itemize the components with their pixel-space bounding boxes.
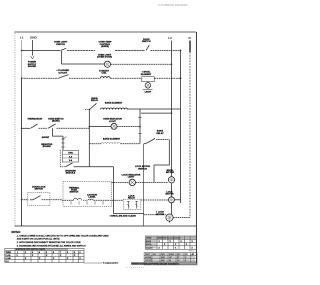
svg-text:RELAY: RELAY bbox=[91, 99, 99, 102]
svg-text:(OVEN DOOR): (OVEN DOOR) bbox=[97, 57, 112, 59]
svg-text:6: 6 bbox=[53, 252, 54, 254]
svg-text:71302307C: 71302307C bbox=[103, 261, 120, 265]
svg-text:5: 5 bbox=[46, 252, 47, 254]
svg-text:3. DIAGRAMS ARE IN RANGE ATTAC: 3. DIAGRAMS ARE IN RANGE ATTACHED ALL WI… bbox=[17, 244, 86, 247]
svg-text:OUTLET: OUTLET bbox=[58, 72, 67, 74]
svg-text:RELAY: RELAY bbox=[156, 132, 164, 135]
svg-text:COIL: COIL bbox=[101, 73, 107, 75]
svg-text:LABEL: LABEL bbox=[88, 196, 96, 199]
svg-text:7: 7 bbox=[60, 252, 61, 254]
svg-text:GND: GND bbox=[30, 36, 38, 40]
svg-text:TERM: TERM bbox=[6, 252, 12, 254]
svg-text:BAKE ELEMENT: BAKE ELEMENT bbox=[105, 102, 123, 105]
svg-text:L1: L1 bbox=[20, 36, 24, 40]
svg-text:MOTOR: MOTOR bbox=[166, 172, 175, 174]
svg-text:LIGHT: LIGHT bbox=[128, 177, 135, 179]
svg-text:RELAY: RELAY bbox=[128, 196, 136, 199]
svg-text:● BROIL (HI) AND CLEAN: ● BROIL (HI) AND CLEAN bbox=[109, 214, 136, 217]
svg-text:0: 0 bbox=[80, 252, 81, 254]
svg-text:(BAKE): (BAKE) bbox=[52, 120, 60, 123]
svg-text:(BAKE): (BAKE) bbox=[101, 45, 109, 48]
svg-text:1. CHECK A WIRE IS IN ALL CIRC: 1. CHECK A WIRE IS IN ALL CIRCUITS GO TO… bbox=[17, 234, 109, 237]
svg-text:LIGHT: LIGHT bbox=[109, 121, 116, 123]
svg-text:SHUNT: SHUNT bbox=[42, 137, 50, 139]
svg-text:MODULE: MODULE bbox=[66, 173, 76, 175]
svg-text:LIGHT: LIGHT bbox=[145, 91, 152, 93]
svg-text:9: 9 bbox=[74, 252, 75, 254]
svg-text:1: 1 bbox=[17, 252, 18, 254]
svg-text:4-40 WIRING DIAGRAM: 4-40 WIRING DIAGRAM bbox=[158, 3, 188, 7]
svg-text:SWITCH: SWITCH bbox=[34, 189, 43, 191]
svg-text:3: 3 bbox=[32, 252, 33, 254]
svg-text:SWITCH: SWITCH bbox=[56, 44, 65, 46]
svg-text:BOARD: BOARD bbox=[28, 65, 36, 68]
svg-text:ELEMENT: ELEMENT bbox=[141, 74, 152, 76]
svg-text:THERMOSTAT: THERMOSTAT bbox=[27, 117, 43, 120]
svg-text:MOTOR: MOTOR bbox=[156, 214, 165, 216]
svg-text:NOTES:: NOTES: bbox=[12, 231, 21, 234]
svg-text:AND START ON COLORS FOR ALL UN: AND START ON COLORS FOR ALL UNITS. bbox=[17, 238, 61, 241]
svg-text:FAN: FAN bbox=[68, 152, 73, 155]
svg-text:MOTOR: MOTOR bbox=[165, 194, 174, 196]
svg-text:SWITCH: SWITCH bbox=[70, 192, 79, 194]
svg-text:L1-2A: L1-2A bbox=[6, 254, 12, 257]
svg-text:H-3: H-3 bbox=[6, 261, 9, 263]
svg-text:L2: L2 bbox=[168, 36, 172, 40]
svg-text:2. WITH RANGE DISCONNECT RESIS: 2. WITH RANGE DISCONNECT RESISTOR FOR CO… bbox=[17, 241, 81, 244]
svg-text:L2-4B: L2-4B bbox=[6, 258, 12, 260]
svg-text:BAKE ELEMENT: BAKE ELEMENT bbox=[103, 137, 121, 140]
svg-text:BOARD: BOARD bbox=[43, 145, 51, 148]
svg-text:4: 4 bbox=[39, 252, 40, 254]
svg-text:SHT 1: SHT 1 bbox=[189, 250, 194, 252]
svg-text:2: 2 bbox=[25, 252, 26, 254]
svg-text:SWITCH: SWITCH bbox=[142, 41, 151, 43]
svg-text:8: 8 bbox=[67, 252, 68, 254]
svg-text:SWITCH: SWITCH bbox=[138, 169, 147, 171]
